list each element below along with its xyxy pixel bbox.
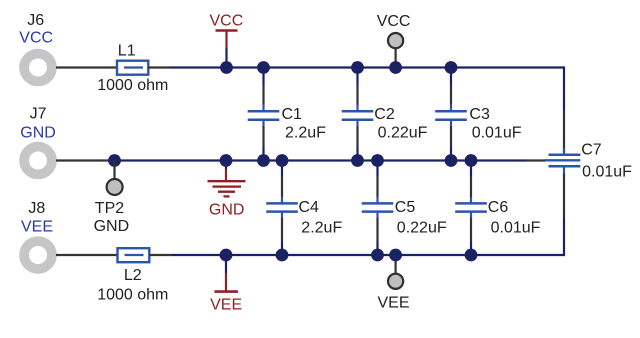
wire riser to C7 xyxy=(563,110,565,152)
VEE flag label xyxy=(210,297,242,314)
svg-text:GND: GND xyxy=(209,201,245,218)
svg-text:0.22uF: 0.22uF xyxy=(397,219,447,236)
junction C6 top xyxy=(465,154,478,167)
J6 label xyxy=(27,12,44,29)
svg-text:0.22uF: 0.22uF xyxy=(378,125,428,142)
svg-text:0.01uF: 0.01uF xyxy=(472,125,522,142)
svg-text:C2: C2 xyxy=(374,106,395,123)
L1 value 1000 ohm xyxy=(97,77,168,94)
power flag VEE xyxy=(215,273,239,292)
J7 label xyxy=(30,106,47,123)
C4 value 2.2uF xyxy=(301,219,342,236)
junction VEE flag xyxy=(220,249,233,262)
pin VCC label xyxy=(377,13,411,30)
wire VEE flag to rail xyxy=(225,255,227,273)
C7 value 0.01uF xyxy=(582,164,632,181)
C3 value 0.01uF xyxy=(472,125,522,142)
wire C7 to bottom riser xyxy=(563,174,565,219)
svg-text:0.01uF: 0.01uF xyxy=(491,219,541,236)
svg-text:TP2: TP2 xyxy=(95,200,124,217)
junction GND symbol xyxy=(220,154,233,167)
J8 label xyxy=(28,200,45,217)
C1 label xyxy=(282,106,303,123)
junction C6 bottom xyxy=(465,249,478,262)
junction VCC pin xyxy=(389,61,402,74)
junction C3 bottom xyxy=(445,154,458,167)
junction C5 top xyxy=(371,154,384,167)
wire J6 to L1 xyxy=(56,66,117,68)
junction VCC flag xyxy=(220,61,233,74)
svg-text:C3: C3 xyxy=(469,106,490,123)
junction C2 top xyxy=(351,61,364,74)
node VCC label at J6 xyxy=(19,30,53,47)
wire VEE rail xyxy=(172,254,564,256)
capacitor C2 xyxy=(342,68,374,161)
wire VCC flag to rail xyxy=(225,48,227,68)
svg-text:1000 ohm: 1000 ohm xyxy=(97,287,168,304)
svg-text:C1: C1 xyxy=(282,106,303,123)
svg-text:J6: J6 xyxy=(27,12,44,29)
capacitor C1 xyxy=(248,68,280,161)
svg-text:C6: C6 xyxy=(488,199,509,216)
test point TP2 xyxy=(107,161,123,196)
wire GND rail end xyxy=(526,159,545,161)
wire right riser top xyxy=(563,66,565,110)
junction TP2 xyxy=(108,154,121,167)
connector J6 xyxy=(24,54,52,82)
svg-text:1000 ohm: 1000 ohm xyxy=(97,77,168,94)
junction C2 bottom xyxy=(351,154,364,167)
svg-text:C5: C5 xyxy=(395,199,416,216)
svg-text:J8: J8 xyxy=(28,200,45,217)
junction C3 top xyxy=(445,61,458,74)
svg-text:2.2uF: 2.2uF xyxy=(285,125,326,142)
svg-text:VCC: VCC xyxy=(210,13,244,30)
TP2 label xyxy=(95,200,124,217)
inductor L1 xyxy=(117,61,148,75)
power flag VCC xyxy=(216,31,238,49)
capacitor C5 xyxy=(362,161,394,256)
junction C4 bottom xyxy=(276,249,289,262)
svg-text:J7: J7 xyxy=(30,106,47,123)
capacitor C7 xyxy=(545,148,580,174)
C7 label xyxy=(581,142,602,159)
svg-text:C7: C7 xyxy=(581,142,602,159)
svg-text:GND: GND xyxy=(20,124,56,141)
wire J7 to TP2 node xyxy=(56,159,110,161)
L2 label xyxy=(124,267,142,284)
junction C4 top xyxy=(276,154,289,167)
capacitor C3 xyxy=(435,68,467,161)
VCC flag label xyxy=(210,13,244,30)
GND symbol label xyxy=(209,201,245,218)
svg-text:VEE: VEE xyxy=(210,297,242,314)
pin VCC xyxy=(388,33,403,64)
junction C1 bottom xyxy=(257,154,270,167)
svg-text:2.2uF: 2.2uF xyxy=(301,219,342,236)
wire GND rail xyxy=(110,159,526,161)
junction C5 bottom xyxy=(371,249,384,262)
capacitor C4 xyxy=(266,161,298,256)
connector J8 xyxy=(24,241,52,269)
C2 label xyxy=(374,106,395,123)
C1 value 2.2uF xyxy=(285,125,326,142)
junction VEE pin xyxy=(389,249,402,262)
C4 label xyxy=(299,199,320,216)
node VEE label at J8 xyxy=(21,219,53,236)
junction C1 top xyxy=(257,61,270,74)
svg-text:C4: C4 xyxy=(299,199,320,216)
C5 value 0.22uF xyxy=(397,219,447,236)
wire J8 to L2 xyxy=(56,254,118,256)
svg-text:GND: GND xyxy=(94,218,130,235)
svg-text:0.01uF: 0.01uF xyxy=(582,164,632,181)
pin VEE label xyxy=(378,295,410,312)
pin VEE xyxy=(388,255,403,289)
L2 value 1000 ohm xyxy=(97,287,168,304)
C2 value 0.22uF xyxy=(378,125,428,142)
wire L2 to VEE rail xyxy=(149,254,172,256)
svg-text:VCC: VCC xyxy=(19,30,53,47)
svg-text:VEE: VEE xyxy=(21,219,53,236)
wire VCC rail xyxy=(170,66,564,68)
node GND label at J7 xyxy=(20,124,56,141)
svg-text:VEE: VEE xyxy=(378,295,410,312)
connector J7 xyxy=(24,147,52,175)
C6 label xyxy=(488,199,509,216)
C3 label xyxy=(469,106,490,123)
ground GND xyxy=(208,161,246,197)
L1 label xyxy=(118,43,136,60)
svg-text:L2: L2 xyxy=(124,267,142,284)
svg-text:VCC: VCC xyxy=(377,13,411,30)
C6 value 0.01uF xyxy=(491,219,541,236)
capacitor C6 xyxy=(455,161,487,256)
wire right riser bottom xyxy=(563,218,565,256)
inductor L2 xyxy=(118,248,150,262)
wire L1 to VCC rail xyxy=(148,66,170,68)
TP2 net label GND xyxy=(94,218,130,235)
C5 label xyxy=(395,199,416,216)
svg-text:L1: L1 xyxy=(118,43,136,60)
